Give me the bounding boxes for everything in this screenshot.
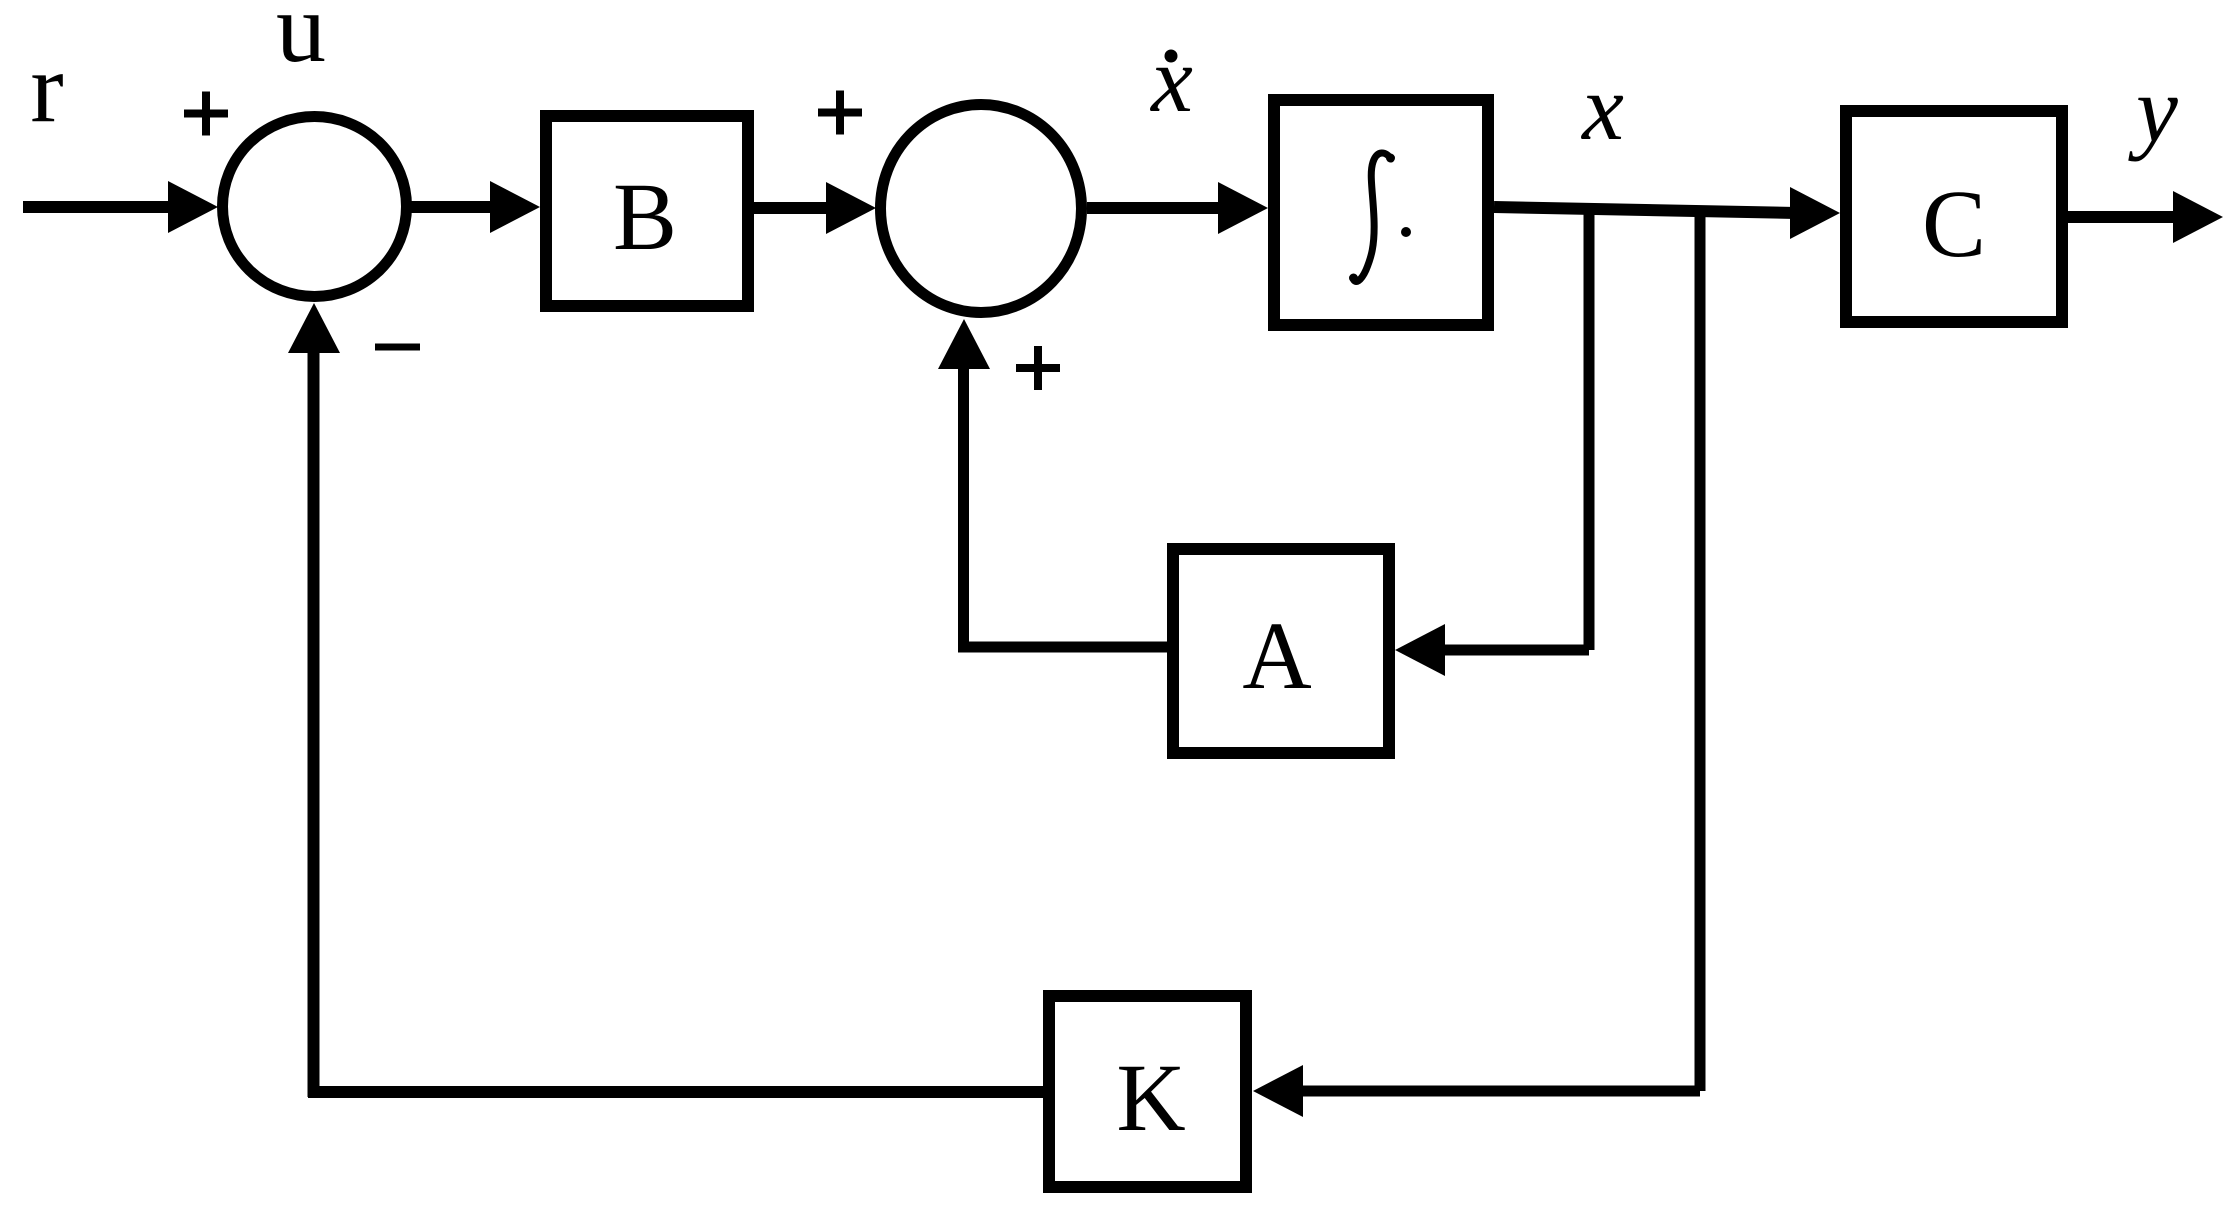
wire corner into A right side	[1440, 645, 1589, 656]
wire A output leftward	[958, 642, 1167, 653]
integral symbol bottom terminal ball	[1349, 274, 1358, 283]
summing junction S2	[881, 105, 1082, 313]
dot after integral sign	[1401, 227, 1411, 237]
integrator block	[1274, 100, 1488, 325]
svg-text:B: B	[613, 163, 677, 270]
block K	[1049, 996, 1246, 1187]
block A	[1173, 549, 1389, 753]
wire B to summer S2	[754, 202, 831, 214]
svg-text:C: C	[1922, 170, 1986, 277]
integral symbol	[1353, 153, 1391, 282]
wire up into summer S1 bottom	[308, 350, 320, 1097]
wire S1 to B	[411, 201, 495, 213]
wire up into summer S2 bottom	[958, 366, 969, 652]
plus sign at summing junction S1 top-left	[184, 92, 228, 136]
summing junction S1	[223, 117, 407, 297]
svg-text:y: y	[2128, 58, 2178, 162]
wire integrator to C	[1494, 207, 1796, 213]
dot accent of x-dot label	[1165, 50, 1178, 63]
minus sign at summing junction S1 bottom input	[375, 344, 420, 351]
wire S2 to integrator	[1087, 202, 1223, 214]
wire branch x to A (vertical drop)	[1584, 209, 1595, 650]
svg-text:r: r	[30, 32, 63, 143]
integral symbol top terminal ball	[1386, 154, 1395, 163]
plus sign at summing junction S2 bottom input	[1016, 346, 1060, 390]
wire C to output y	[2068, 211, 2177, 223]
svg-text:x: x	[1580, 56, 1624, 160]
svg-text:x: x	[1149, 28, 1193, 132]
wire corner into K right side	[1298, 1086, 1700, 1097]
wire r into summer S1	[23, 201, 172, 213]
block B	[546, 116, 748, 306]
svg-text:A: A	[1242, 602, 1311, 709]
block C	[1846, 111, 2062, 322]
svg-text:K: K	[1116, 1044, 1185, 1151]
svg-text:u: u	[276, 0, 326, 83]
wire branch x to K (vertical drop)	[1695, 211, 1706, 1091]
wire K output leftward	[308, 1086, 1043, 1098]
plus sign at summing junction S2 top-left	[818, 91, 862, 135]
